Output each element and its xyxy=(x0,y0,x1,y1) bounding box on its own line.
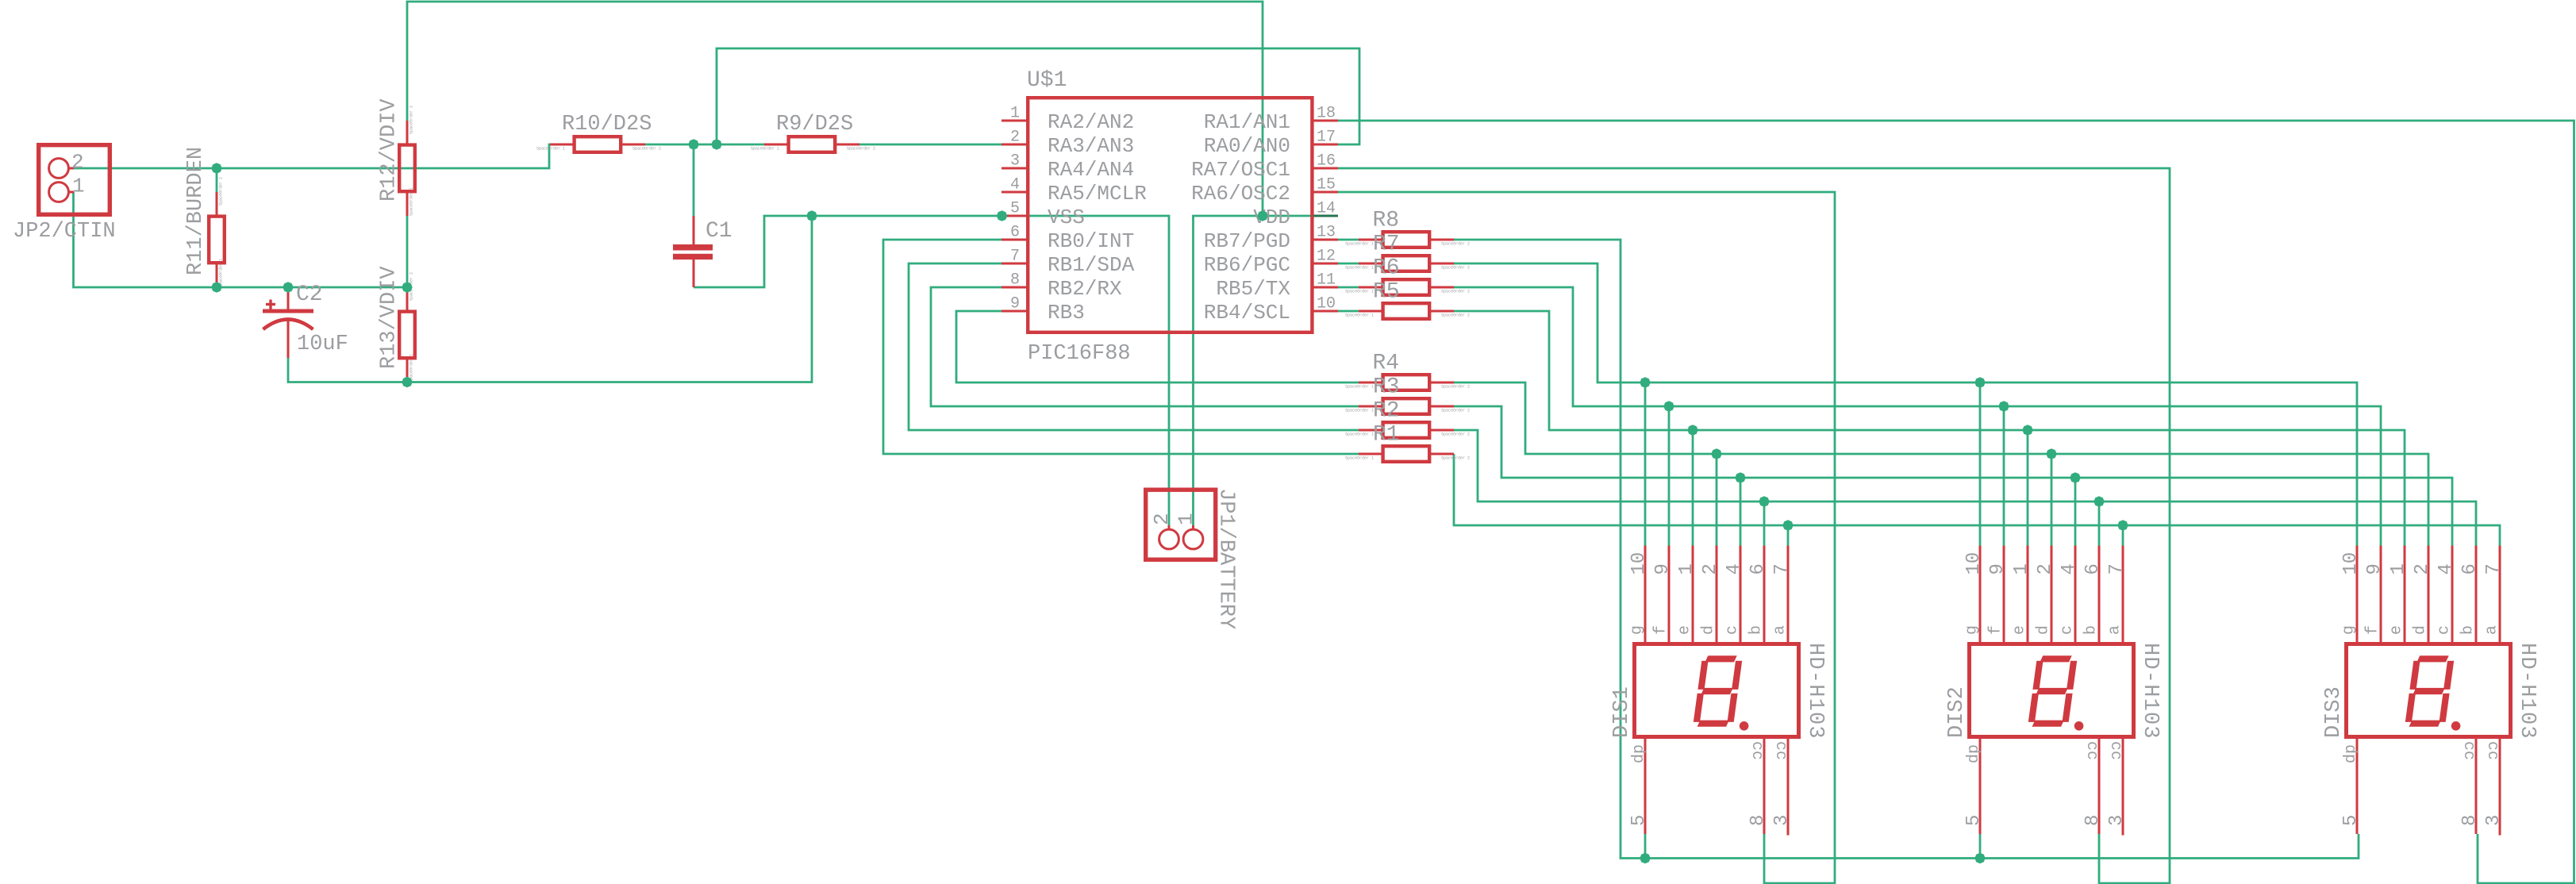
svg-text:f: f xyxy=(1987,625,2005,635)
svg-text:R1: R1 xyxy=(1373,423,1400,448)
svg-text:17: 17 xyxy=(1317,129,1336,147)
svg-text:2: 2 xyxy=(1700,563,1721,575)
svg-text:3: 3 xyxy=(2483,815,2505,826)
svg-text:SpaceOrder 1: SpaceOrder 1 xyxy=(1345,456,1374,461)
svg-text:18: 18 xyxy=(1317,105,1336,123)
svg-text:RA0/AN0: RA0/AN0 xyxy=(1204,134,1290,158)
svg-text:SpaceOrder 1: SpaceOrder 1 xyxy=(751,147,779,152)
svg-text:R7: R7 xyxy=(1373,233,1400,257)
svg-text:SpaceOrder 2: SpaceOrder 2 xyxy=(1441,313,1470,318)
svg-text:SpaceOrder 1: SpaceOrder 1 xyxy=(1345,385,1374,390)
svg-text:RB3: RB3 xyxy=(1048,301,1085,325)
svg-text:R13/VDIV: R13/VDIV xyxy=(378,266,402,369)
svg-text:R9/D2S: R9/D2S xyxy=(776,113,853,136)
svg-text:d: d xyxy=(2035,625,2053,635)
svg-text:R5: R5 xyxy=(1373,280,1400,305)
svg-text:SpaceOrder 2: SpaceOrder 2 xyxy=(1441,242,1470,247)
svg-text:dp: dp xyxy=(1963,744,1982,763)
svg-text:g: g xyxy=(2340,625,2359,635)
svg-text:RB7/PGD: RB7/PGD xyxy=(1204,229,1290,253)
svg-text:SpaceOrder 1: SpaceOrder 1 xyxy=(1345,266,1374,271)
svg-text:9: 9 xyxy=(1987,563,2009,575)
svg-text:4: 4 xyxy=(1724,563,1745,575)
svg-text:RA3/AN3: RA3/AN3 xyxy=(1048,134,1134,158)
svg-text:cc: cc xyxy=(2483,741,2501,760)
svg-text:SpaceOrder 2: SpaceOrder 2 xyxy=(847,147,875,152)
svg-text:RA2/AN2: RA2/AN2 xyxy=(1048,110,1134,134)
svg-text:SpaceOrder 2: SpaceOrder 2 xyxy=(1441,266,1470,271)
svg-text:6: 6 xyxy=(1747,563,1769,575)
svg-text:2: 2 xyxy=(2035,563,2056,575)
svg-text:a: a xyxy=(2483,625,2501,635)
svg-text:e: e xyxy=(2388,625,2406,635)
svg-text:R3: R3 xyxy=(1373,375,1400,400)
svg-text:DIS1: DIS1 xyxy=(1610,686,1634,738)
svg-text:1: 1 xyxy=(72,175,85,198)
svg-text:SpaceOrder 2: SpaceOrder 2 xyxy=(1441,432,1470,437)
svg-text:cc: cc xyxy=(1771,741,1790,760)
svg-text:R10/D2S: R10/D2S xyxy=(562,113,652,136)
svg-text:1: 1 xyxy=(1010,105,1020,123)
svg-text:R6: R6 xyxy=(1373,256,1400,281)
svg-text:7: 7 xyxy=(1010,248,1020,266)
svg-text:5: 5 xyxy=(2340,815,2362,826)
svg-text:SpaceOrder 1: SpaceOrder 1 xyxy=(1345,409,1374,413)
svg-text:RB6/PGC: RB6/PGC xyxy=(1204,253,1290,277)
svg-text:R8: R8 xyxy=(1373,209,1400,233)
svg-text:dp: dp xyxy=(2340,744,2359,763)
svg-text:PIC16F88: PIC16F88 xyxy=(1028,342,1131,366)
svg-text:RA6/OSC2: RA6/OSC2 xyxy=(1191,182,1290,206)
svg-text:3: 3 xyxy=(1010,152,1020,171)
svg-text:cc: cc xyxy=(2459,741,2478,760)
svg-text:e: e xyxy=(2011,625,2029,635)
svg-text:g: g xyxy=(1963,625,1982,635)
svg-text:e: e xyxy=(1676,625,1694,635)
svg-text:C1: C1 xyxy=(706,219,732,244)
svg-text:10uF: 10uF xyxy=(297,332,348,356)
svg-text:12: 12 xyxy=(1317,248,1336,266)
svg-text:U$1: U$1 xyxy=(1027,68,1067,93)
svg-text:HD-H103: HD-H103 xyxy=(2138,643,2162,740)
svg-text:JP1/BATTERY: JP1/BATTERY xyxy=(1214,488,1238,629)
svg-text:SpaceOrder 1: SpaceOrder 1 xyxy=(536,147,565,152)
svg-text:JP2/CTIN: JP2/CTIN xyxy=(13,220,116,244)
svg-text:SpaceOrder 2: SpaceOrder 2 xyxy=(219,177,224,206)
svg-text:g: g xyxy=(1628,625,1647,635)
svg-text:3: 3 xyxy=(2106,815,2128,826)
svg-text:RA4/AN4: RA4/AN4 xyxy=(1048,158,1134,182)
svg-text:7: 7 xyxy=(2106,563,2128,575)
svg-text:2: 2 xyxy=(71,151,84,175)
svg-text:a: a xyxy=(1771,625,1790,635)
svg-text:cc: cc xyxy=(2082,741,2101,760)
svg-text:SpaceOrder 1: SpaceOrder 1 xyxy=(219,259,224,287)
svg-text:b: b xyxy=(2459,625,2478,635)
svg-text:4: 4 xyxy=(2436,563,2457,575)
svg-text:R11/BURDEN: R11/BURDEN xyxy=(184,147,208,275)
svg-text:RB5/TX: RB5/TX xyxy=(1216,277,1290,301)
svg-text:9: 9 xyxy=(1652,563,1674,575)
svg-text:DIS3: DIS3 xyxy=(2322,686,2346,738)
svg-text:b: b xyxy=(2082,625,2101,635)
svg-text:R2: R2 xyxy=(1373,399,1400,424)
svg-text:RB0/INT: RB0/INT xyxy=(1048,229,1134,253)
svg-text:1: 1 xyxy=(2388,563,2409,575)
svg-text:HD-H103: HD-H103 xyxy=(2515,643,2539,740)
svg-text:1: 1 xyxy=(1175,513,1198,525)
svg-text:1: 1 xyxy=(1676,563,1697,575)
svg-text:SpaceOrder 1: SpaceOrder 1 xyxy=(1345,242,1374,247)
svg-text:RB1/SDA: RB1/SDA xyxy=(1048,253,1135,277)
svg-text:RA1/AN1: RA1/AN1 xyxy=(1204,110,1290,134)
svg-text:SpaceOrder 1: SpaceOrder 1 xyxy=(1345,313,1374,318)
svg-text:16: 16 xyxy=(1317,152,1336,171)
svg-text:cc: cc xyxy=(1747,741,1766,760)
svg-text:SpaceOrder 2: SpaceOrder 2 xyxy=(409,106,414,134)
svg-text:d: d xyxy=(2412,625,2430,635)
svg-text:R12/VDIV: R12/VDIV xyxy=(378,98,402,202)
svg-text:9: 9 xyxy=(1010,295,1020,313)
svg-text:RB4/SCL: RB4/SCL xyxy=(1204,301,1290,325)
svg-text:9: 9 xyxy=(2364,563,2386,575)
svg-text:6: 6 xyxy=(1010,224,1020,242)
svg-text:R4: R4 xyxy=(1373,352,1400,376)
svg-text:7: 7 xyxy=(1771,563,1793,575)
svg-text:SpaceOrder 1: SpaceOrder 1 xyxy=(409,187,414,216)
svg-text:b: b xyxy=(1747,625,1766,635)
svg-text:8: 8 xyxy=(1010,271,1020,290)
svg-text:SpaceOrder 2: SpaceOrder 2 xyxy=(632,147,661,152)
svg-text:SpaceOrder 1: SpaceOrder 1 xyxy=(1345,290,1374,294)
svg-text:7: 7 xyxy=(2483,563,2505,575)
svg-text:a: a xyxy=(2106,625,2124,635)
svg-text:2: 2 xyxy=(2412,563,2433,575)
svg-text:VSS: VSS xyxy=(1048,206,1085,229)
svg-text:3: 3 xyxy=(1771,815,1793,826)
svg-text:10: 10 xyxy=(1963,552,1985,575)
svg-text:RA7/OSC1: RA7/OSC1 xyxy=(1191,158,1290,182)
svg-text:5: 5 xyxy=(1628,815,1650,826)
svg-text:10: 10 xyxy=(2340,552,2362,575)
svg-text:cc: cc xyxy=(2106,741,2124,760)
svg-text:C2: C2 xyxy=(296,282,323,307)
svg-text:SpaceOrder 2: SpaceOrder 2 xyxy=(1441,409,1470,413)
svg-text:10: 10 xyxy=(1628,552,1650,575)
svg-text:f: f xyxy=(2364,625,2382,635)
svg-text:6: 6 xyxy=(2459,563,2481,575)
svg-text:1: 1 xyxy=(2011,563,2032,575)
svg-text:8: 8 xyxy=(2459,815,2481,826)
svg-text:RA5/MCLR: RA5/MCLR xyxy=(1048,182,1147,206)
svg-text:2: 2 xyxy=(1010,129,1020,147)
svg-text:13: 13 xyxy=(1317,224,1336,242)
svg-text:5: 5 xyxy=(1010,200,1020,218)
svg-text:5: 5 xyxy=(1963,815,1985,826)
svg-text:d: d xyxy=(1700,625,1718,635)
svg-text:4: 4 xyxy=(2059,563,2080,575)
svg-text:4: 4 xyxy=(1010,176,1020,194)
svg-text:2: 2 xyxy=(1150,513,1174,525)
svg-text:dp: dp xyxy=(1628,744,1647,763)
svg-text:SpaceOrder 1: SpaceOrder 1 xyxy=(1345,432,1374,437)
svg-text:11: 11 xyxy=(1317,271,1336,290)
svg-text:15: 15 xyxy=(1317,176,1336,194)
svg-text:6: 6 xyxy=(2082,563,2104,575)
svg-text:HD-H103: HD-H103 xyxy=(1803,643,1827,740)
svg-text:RB2/RX: RB2/RX xyxy=(1048,277,1122,301)
svg-text:8: 8 xyxy=(1747,815,1769,826)
svg-text:SpaceOrder 2: SpaceOrder 2 xyxy=(1441,290,1470,294)
svg-text:SpaceOrder 2: SpaceOrder 2 xyxy=(1441,385,1470,390)
svg-text:SpaceOrder 2: SpaceOrder 2 xyxy=(1441,456,1470,461)
svg-text:c: c xyxy=(2436,625,2454,635)
svg-text:c: c xyxy=(2059,625,2077,635)
svg-text:8: 8 xyxy=(2082,815,2104,826)
svg-text:f: f xyxy=(1652,625,1671,635)
svg-text:DIS2: DIS2 xyxy=(1945,686,1969,738)
svg-text:c: c xyxy=(1724,625,1742,635)
svg-text:10: 10 xyxy=(1317,295,1336,313)
